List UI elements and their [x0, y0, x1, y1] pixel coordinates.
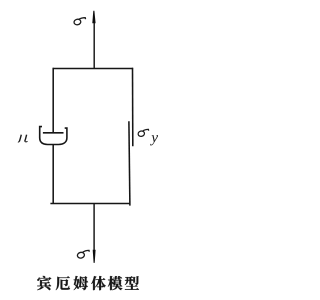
wire left edge upper (piston rod into dashpot): [52, 68, 54, 133]
wire top edge of frame: [53, 68, 134, 70]
label sigma_y (yield stress): [138, 129, 149, 137]
wire left edge lower (rod below dashpot): [52, 145, 54, 205]
label sigma (top): [73, 18, 85, 26]
caption char 宾: [37, 276, 51, 290]
arrowhead top (applied stress, upward): [92, 11, 95, 23]
caption char 型: [125, 276, 139, 290]
caption char 厄: [56, 276, 70, 290]
label mu (viscosity): [18, 135, 28, 142]
wire top arrow stem: [93, 22, 95, 69]
caption char 体: [91, 276, 106, 290]
dashpot cylinder cup: [40, 127, 67, 145]
label sigma (bottom): [77, 250, 89, 258]
friction element lower plate (right edge lower rod): [129, 121, 130, 205]
dashpot piston bar: [43, 132, 64, 134]
caption char 姆: [74, 276, 88, 290]
wire bottom edge of frame: [50, 203, 130, 205]
arrowhead bottom (reaction stress, downward): [93, 250, 96, 263]
caption char 模: [108, 276, 123, 290]
wire bottom arrow stem: [93, 204, 95, 252]
friction element upper plate (right edge upper rod): [132, 68, 134, 146]
